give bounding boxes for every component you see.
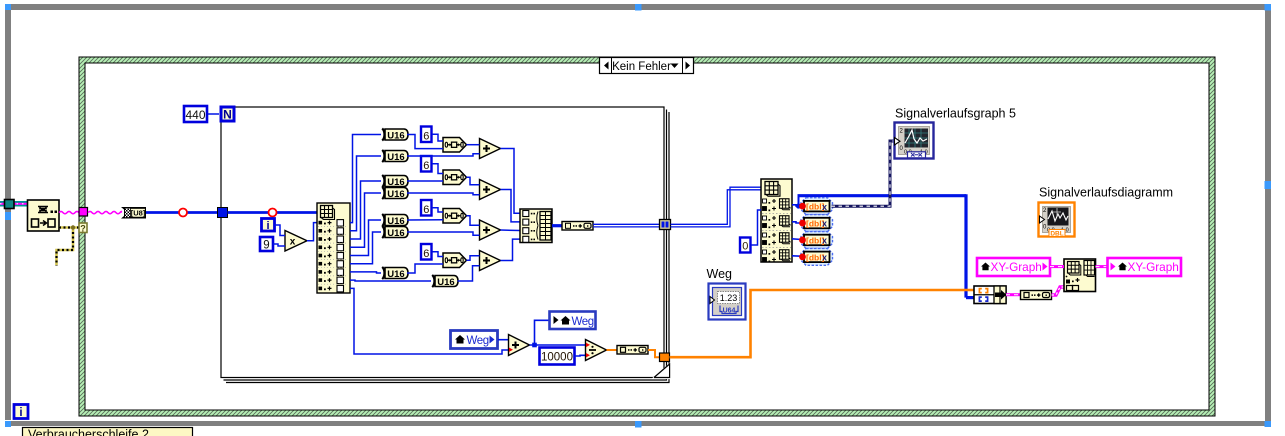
- divide node: [586, 340, 607, 361]
- cluster wire bundle to right property: [1096, 265, 1108, 268]
- svg-text:x: x: [822, 236, 827, 246]
- svg-text:0: 0: [742, 241, 748, 253]
- wire add out with junction: [530, 320, 586, 345]
- convert to dynamic data node #2: [799, 215, 832, 232]
- 2D array tunnel on for loop right edge: [660, 220, 671, 230]
- case selector label "Kein Fehler": [600, 58, 694, 74]
- constant 10000: [540, 348, 575, 365]
- wire U16#6 to add3 low: [407, 232, 480, 235]
- wire shift3 to add3: [467, 216, 480, 226]
- constant 6 #2: [421, 156, 432, 172]
- svg-text:U16: U16: [437, 277, 454, 288]
- iteration terminal i (for loop): [262, 219, 275, 233]
- Index Array node: [317, 203, 350, 293]
- wire shift1 to add1: [467, 144, 480, 146]
- add node #3: [480, 220, 501, 240]
- add node #4: [480, 251, 501, 271]
- add node (Weg accumulate): [509, 335, 530, 356]
- convert to dynamic data node #4: [799, 248, 832, 265]
- Index Array rows: [318, 220, 348, 292]
- magenta tunnel on case border: [79, 208, 88, 217]
- svg-text:Weg: Weg: [707, 267, 733, 281]
- waveform graph terminal arrow: [895, 138, 901, 146]
- conversion node U16 #8: [432, 275, 458, 288]
- wire 9 to multiply: [273, 244, 285, 246]
- cluster-array wire (magenta hatched) to bundle node: [1052, 287, 1065, 295]
- array tunnel on for loop: [218, 208, 228, 218]
- logical shift node #1: [443, 138, 467, 153]
- svg-text:Verbraucherschleife 2: Verbraucherschleife 2: [28, 428, 149, 436]
- rows: [763, 199, 767, 203]
- wire multiply to Index Array: [307, 223, 317, 241]
- svg-text:U16: U16: [387, 269, 404, 280]
- svg-text:6: 6: [423, 131, 429, 143]
- wire i to multiply: [275, 225, 286, 236]
- constant 440: [184, 106, 207, 122]
- conversion node U16 #3: [382, 175, 408, 188]
- wire U16#3 to shift2 low: [407, 180, 443, 182]
- waveform graph terminal icon (Signalverlaufsgraph 5): [895, 123, 934, 159]
- local variable write: Weg indicator: [550, 312, 596, 330]
- wire add3 to build array r3: [501, 229, 521, 232]
- dynamic data wire to waveform graph: [832, 141, 895, 206]
- constant 6 #1: [421, 127, 432, 143]
- property ref XY-Graph (left): [977, 258, 1050, 276]
- svg-text:x: x: [822, 252, 827, 262]
- conversion node U16 #4: [382, 187, 408, 200]
- svg-text:6: 6: [423, 204, 429, 216]
- wire 6#1 to shift1 high: [432, 134, 443, 141]
- array-to-cluster node (Weg): [617, 346, 648, 355]
- svg-text:Signalverlaufsgraph 5: Signalverlaufsgraph 5: [895, 107, 1016, 121]
- bundle-pair node (XY): [974, 286, 1007, 304]
- waveform chart terminal icon (Signalverlaufsdiagramm): [1039, 203, 1075, 238]
- svg-text:U16: U16: [387, 130, 404, 141]
- Index Array 2D node: [761, 179, 792, 262]
- orange wire to tunnel: [648, 350, 660, 357]
- wire U16#4 to add2 low: [407, 193, 480, 195]
- svg-text:i: i: [266, 220, 269, 232]
- wires Index Array outputs to U16 converters: [350, 135, 509, 355]
- while loop iteration terminal i: [14, 405, 28, 420]
- svg-text:[U8]: [U8]: [131, 208, 146, 217]
- cluster wire property to bundle: [1050, 265, 1064, 268]
- convert to dynamic data node #1: [799, 198, 832, 215]
- wire U16#2 to add1 low: [407, 154, 480, 156]
- cluster wire (magenta zigzag) dequeue to case tunnel: [59, 211, 79, 213]
- logical shift node #2: [443, 170, 467, 185]
- wires Index Array 2D to dynamic converters: [792, 205, 802, 256]
- wire 6#3 to shift3 high: [432, 208, 443, 212]
- svg-text:1.23: 1.23: [720, 293, 738, 303]
- constant 0: [740, 238, 751, 253]
- wire shift4 to add4: [467, 256, 480, 261]
- svg-text:DBL: DBL: [1050, 231, 1063, 238]
- build array node: [520, 209, 552, 243]
- wire add2 to build array r2: [501, 190, 521, 222]
- coercion dot: [179, 209, 187, 217]
- property ref XY-Graph (right, write): [1108, 258, 1182, 276]
- type cast node [U8]: [121, 207, 146, 219]
- N terminal: [221, 107, 234, 122]
- conversion node U16 #1: [382, 128, 408, 141]
- wires U16/6 into shift nodes and adders: [407, 134, 520, 281]
- wire U16#1 to shift1 low: [407, 135, 443, 149]
- wire build array to array-to-cluster: [552, 224, 562, 227]
- wire tunnel to Index Array: [228, 211, 318, 214]
- svg-text:x: x: [290, 237, 296, 248]
- svg-text:10000: 10000: [541, 352, 573, 364]
- 2D array wire (double) tunnel to Index Array 2D: [671, 187, 762, 227]
- orange tunnel on for loop edge: [660, 353, 670, 362]
- conversion node U16 #2: [382, 150, 408, 163]
- constant 9: [260, 237, 273, 252]
- svg-text:?: ?: [80, 224, 86, 234]
- logical shift node #4: [443, 253, 467, 268]
- svg-text:x: x: [822, 202, 827, 212]
- orange wire tunnel to XY bundle: [670, 290, 975, 357]
- array-to-cluster node (XY): [1021, 291, 1052, 300]
- svg-text:U16: U16: [387, 152, 404, 163]
- conversion node U16 #5: [382, 214, 408, 227]
- logical shift node #3: [443, 209, 467, 224]
- wire U16#5 to shift3 low: [407, 219, 443, 221]
- svg-text:N: N: [223, 108, 232, 122]
- wire Weg local to add: [498, 339, 509, 341]
- queue tunnel on while loop border: [5, 200, 15, 209]
- conversion node U16 #6: [382, 226, 408, 239]
- wire add4 to build array r4: [501, 239, 521, 260]
- svg-text:U64: U64: [723, 308, 736, 315]
- svg-text:9: 9: [263, 240, 269, 252]
- wire 440 to N: [208, 113, 219, 115]
- U8-array wire to for loop: [146, 211, 218, 214]
- svg-text:i: i: [19, 407, 22, 419]
- svg-text:U16: U16: [387, 216, 404, 227]
- for loop (parallel, stacked frames): [221, 107, 669, 383]
- wire U16#7 to shift4 low: [407, 264, 443, 273]
- svg-text:U16: U16: [387, 189, 404, 200]
- 2D array wire (double) to for loop tunnel: [593, 224, 660, 227]
- conversion node U16 #7: [382, 267, 408, 280]
- svg-text:6: 6: [423, 160, 429, 172]
- svg-text:Kein Fehler: Kein Fehler: [612, 61, 671, 73]
- svg-text:XY-Graph: XY-Graph: [991, 260, 1042, 274]
- wire 10000 to divide: [575, 354, 586, 357]
- multiply node: [285, 231, 307, 252]
- svg-text:U16: U16: [387, 177, 404, 188]
- error wire (yellow/black dashed): [57, 225, 80, 265]
- free label Verbraucherschleife 2: [23, 428, 193, 436]
- constant 6 #4: [421, 244, 432, 260]
- svg-text:x: x: [822, 219, 827, 229]
- wire 6#4 to shift4 high: [433, 252, 444, 257]
- add node #2: [480, 180, 501, 200]
- wire shift2 to add2: [467, 177, 480, 185]
- wire 6#2 to shift2 high: [432, 164, 443, 174]
- convert to dynamic data node #3: [799, 232, 832, 249]
- bundle node (XY graph data): [1064, 259, 1096, 292]
- svg-text:Signalverlaufsdiagramm: Signalverlaufsdiagramm: [1039, 186, 1173, 200]
- svg-text:Weg: Weg: [467, 335, 489, 347]
- orange wire divide to conversion: [607, 349, 618, 351]
- add node #1: [480, 139, 501, 159]
- wire add1 to build array r1: [501, 149, 521, 214]
- local variable read: Weg: [451, 331, 498, 349]
- wire 0 to Index Array 2D: [751, 210, 761, 245]
- constant 6 #3: [421, 200, 432, 216]
- case selector tunnel "?": [79, 223, 87, 234]
- svg-text:6: 6: [423, 248, 429, 260]
- case structure "Kein Fehler" border: [79, 57, 1215, 416]
- svg-text:U16: U16: [387, 228, 404, 239]
- svg-text:Weg: Weg: [572, 316, 594, 328]
- svg-text:XY-Graph: XY-Graph: [1128, 260, 1179, 274]
- numeric control Weg: [709, 284, 746, 320]
- array to cluster node: [562, 222, 593, 231]
- dequeue element node: [28, 200, 60, 231]
- cluster wire (magenta dashed) to array-to-cluster: [1006, 293, 1021, 296]
- for loop corner fold: [654, 364, 670, 378]
- svg-text:440: 440: [185, 108, 205, 122]
- junction and 1D array wire to XY section: [798, 194, 975, 297]
- wire U16#8 to add4 low: [458, 266, 480, 281]
- queue refnum wire (teal/magenta): [0, 201, 27, 207]
- coercion dot: [269, 209, 277, 217]
- cluster wire (magenta zigzag) tunnel to [u8] node: [88, 211, 121, 213]
